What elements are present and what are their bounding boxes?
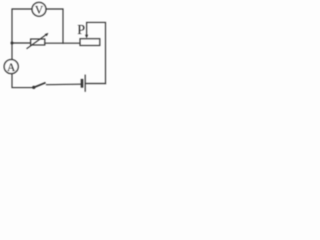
- rheostat slider diagonal arrow: [27, 34, 47, 49]
- wire: top-left corner to voltmeter: [12, 9, 32, 43]
- wire: bottom-left corner to switch hinge: [12, 74, 33, 88]
- wire: rheostat to resistor R left lead: [45, 42, 80, 44]
- battery: short thick negative plate: [81, 80, 84, 86]
- wire: node to rheostat left lead: [12, 42, 31, 44]
- rheostat (slide resistor) body: [31, 39, 45, 45]
- wire: voltmeter to top-right elbow, down to node: [46, 9, 63, 43]
- voltmeter V: [32, 2, 46, 16]
- node: junction dot on left rail: [11, 42, 14, 45]
- svg-text:P: P: [77, 23, 85, 38]
- wire: left rail, node to ammeter: [11, 43, 13, 60]
- svg-text:A: A: [7, 62, 16, 74]
- switch S lever: [33, 83, 44, 88]
- wire: bottom-right, rail to battery: [86, 83, 106, 85]
- wire: slider top elbow to right rail: [87, 22, 106, 83]
- slider arrow P stem: [86, 23, 88, 36]
- resistor R body (with slider P): [80, 39, 100, 46]
- battery: long thin positive plate: [84, 75, 86, 91]
- slider arrowhead: [85, 35, 88, 39]
- switch hinge dot: [32, 86, 35, 89]
- ammeter A: [4, 60, 18, 74]
- wire: battery to switch contact: [47, 83, 82, 86]
- svg-text:V: V: [35, 4, 44, 16]
